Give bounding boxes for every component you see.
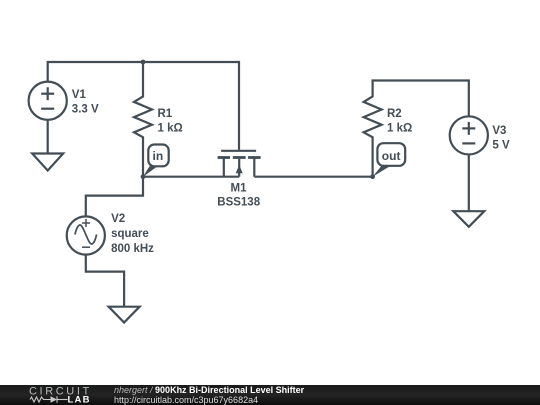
- svg-text:5 V: 5 V: [492, 140, 510, 152]
- footer title: [114, 385, 304, 395]
- svg-text:out: out: [382, 149, 401, 163]
- svg-text:BSS138: BSS138: [217, 197, 260, 209]
- node out junction: [370, 174, 375, 179]
- footer url: [114, 395, 258, 405]
- svg-text:1 kΩ: 1 kΩ: [158, 123, 183, 135]
- wire M1 source to in node: [143, 176, 239, 178]
- node A top rail junction: [141, 60, 146, 65]
- ground for V2: [109, 307, 140, 323]
- logo CircuitLab: [28, 384, 138, 405]
- net flag in: [143, 145, 169, 177]
- svg-text:M1: M1: [231, 183, 248, 195]
- wire M1 drain to out node: [254, 176, 372, 178]
- svg-text:R2: R2: [387, 108, 402, 120]
- svg-text:3.3 V: 3.3 V: [72, 104, 99, 116]
- node in junction: [141, 174, 146, 179]
- svg-text:V1: V1: [72, 89, 87, 101]
- svg-text:square: square: [111, 228, 149, 240]
- svg-text:R1: R1: [158, 108, 173, 120]
- net flag out: [373, 143, 406, 177]
- wire R2 top to V3: [372, 81, 469, 117]
- voltage source V2: [67, 216, 124, 306]
- wire in node to V2: [86, 177, 143, 217]
- ground for V3: [453, 211, 484, 227]
- footer bar: [0, 385, 540, 405]
- svg-text:in: in: [153, 149, 164, 163]
- resistor R2: [364, 81, 382, 177]
- voltage source V3: [450, 116, 488, 211]
- transistor M1 MOSFET: [218, 151, 261, 177]
- svg-text:1 kΩ: 1 kΩ: [387, 123, 412, 135]
- ground for V1: [32, 154, 63, 171]
- svg-text:800 kHz: 800 kHz: [111, 243, 154, 255]
- wire top rail V1 to M1 gate: [48, 62, 239, 150]
- svg-text:V2: V2: [111, 213, 125, 225]
- voltage source V1: [29, 82, 67, 154]
- svg-text:V3: V3: [492, 125, 506, 137]
- svg-text:LAB: LAB: [68, 395, 91, 405]
- resistor R1: [134, 62, 152, 177]
